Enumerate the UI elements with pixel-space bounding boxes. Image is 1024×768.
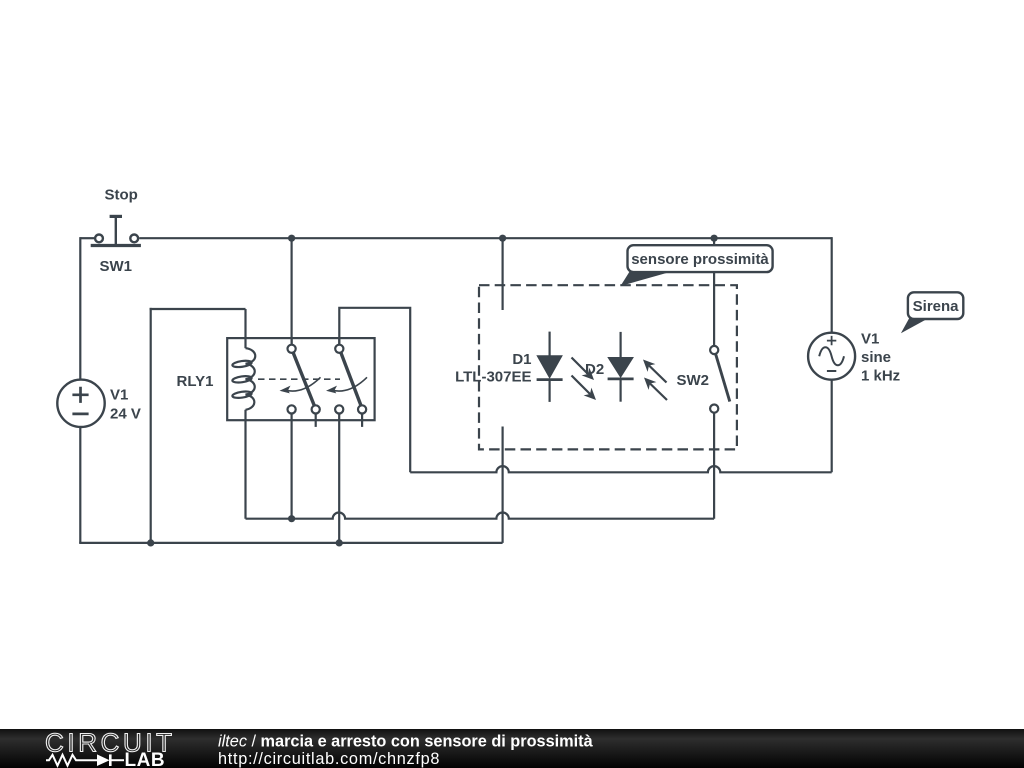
wire SW2 top feed <box>713 238 715 346</box>
wire relay sw2 top to jog <box>339 308 410 473</box>
wire y518.7 with hops <box>246 513 715 519</box>
wire relay sw1 bottom-left vertical <box>291 414 293 519</box>
wire top rail left stub <box>80 237 94 239</box>
svg-text:SW1: SW1 <box>100 258 133 275</box>
relay RLY1 box <box>227 338 374 420</box>
svg-text:sensore prossimità: sensore prossimità <box>631 251 769 268</box>
wire x150.7 vertical <box>150 308 152 543</box>
relay switch 2 <box>332 338 367 413</box>
svg-text:Sirena: Sirena <box>913 298 960 315</box>
wire relay sw2 bottom-right stub <box>361 414 363 427</box>
svg-text:V1: V1 <box>110 387 128 404</box>
svg-text:SW2: SW2 <box>677 372 710 389</box>
node junction top rail at SW2 <box>711 235 718 242</box>
callout sensore prossimita <box>621 245 773 286</box>
wire relay sw1 top <box>291 238 293 344</box>
switch SW2 <box>710 346 730 413</box>
relay switch 1 <box>286 338 321 413</box>
photodiode D2 incoming arrow 1 <box>643 360 667 383</box>
LED D1 emission arrow 1 <box>572 358 595 381</box>
svg-text:LAB: LAB <box>125 750 166 768</box>
node junction y543 at x150 <box>147 539 154 546</box>
svg-text:Stop: Stop <box>105 187 138 204</box>
svg-text:http://circuitlab.com/chnzfp8: http://circuitlab.com/chnzfp8 <box>218 750 440 768</box>
svg-text:D2: D2 <box>585 361 604 378</box>
LED D1 emission arrow 2 <box>572 376 597 401</box>
dashed enclosure sensore prossimita <box>479 285 737 449</box>
svg-text:iltec / marcia e arresto con s: iltec / marcia e arresto con sensore di … <box>218 733 594 751</box>
svg-text:RLY1: RLY1 <box>177 373 214 390</box>
wire left vertical to V1 <box>79 237 81 380</box>
node junction top rail at relay <box>288 235 295 242</box>
svg-text:24 V: 24 V <box>110 406 141 423</box>
relay switch 1 arrowhead <box>280 386 291 394</box>
logo diode triangle <box>97 754 110 766</box>
switch SW1 pushbutton <box>91 216 141 245</box>
wire relay sw1 bottom-right stub <box>315 414 317 427</box>
callout Sirena <box>901 292 963 333</box>
wire AC top <box>831 237 833 333</box>
logo resistor zigzag and diode <box>46 754 124 766</box>
node junction y543 at x339 <box>336 539 343 546</box>
wire D1 bottom feed <box>502 427 504 543</box>
wire SW2 bottom vertical <box>713 413 715 519</box>
wire AC bottom <box>831 380 833 473</box>
relay switch 2 arrowhead <box>326 386 337 394</box>
photodiode D2 <box>608 332 634 402</box>
wire V1 bottom to ground rail <box>79 427 81 543</box>
source V1 sine (AC) <box>808 333 855 380</box>
wire coil top <box>244 309 246 348</box>
wire y472.3 with hops <box>410 466 832 472</box>
node junction top rail at D1 <box>499 235 506 242</box>
node junction y518 at x291 <box>288 515 295 522</box>
relay dashed actuation line <box>258 378 340 380</box>
source V1 24V <box>57 380 104 427</box>
LED D1 triangle <box>538 356 562 377</box>
photodiode D2 triangle <box>609 358 633 377</box>
svg-text:LTL-307EE: LTL-307EE <box>455 369 531 386</box>
svg-text:V1: V1 <box>861 331 879 348</box>
LED D1 <box>537 332 563 402</box>
svg-text:1 kHz: 1 kHz <box>861 368 900 385</box>
wire D1 top feed <box>502 238 504 310</box>
photodiode D2 incoming arrow 2 <box>644 378 667 401</box>
wire bottom rail y543 <box>79 542 502 544</box>
wire relay sw2 bottom-left vertical <box>338 414 340 543</box>
svg-text:D1: D1 <box>512 351 531 368</box>
svg-text:sine: sine <box>861 349 891 366</box>
wire coil bottom <box>244 410 246 519</box>
wire top rail <box>139 237 832 239</box>
relay coil <box>232 348 255 410</box>
wire y309 horizontal <box>150 308 246 310</box>
